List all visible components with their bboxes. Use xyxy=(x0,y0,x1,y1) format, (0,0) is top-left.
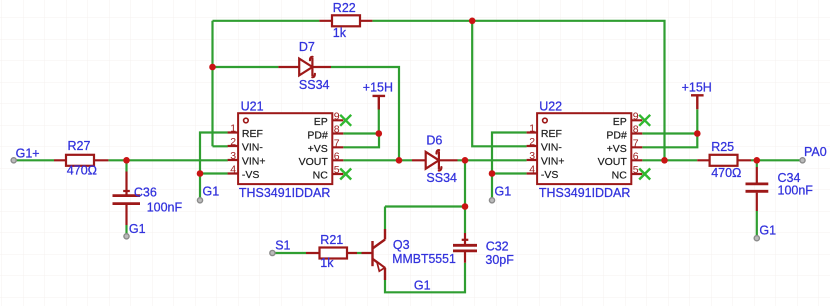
ground G1 under U22 xyxy=(489,198,494,203)
wire D6 cathode to U22 VIN+ xyxy=(458,159,527,161)
capacitor C36 tick xyxy=(123,190,130,192)
capacitor C34 leads xyxy=(756,167,758,211)
svg-text:4: 4 xyxy=(529,164,535,176)
node R22 right branch xyxy=(469,18,476,25)
resistor R21 body xyxy=(320,248,348,259)
U21 pin stubs left xyxy=(228,133,239,174)
capacitor C32 plates xyxy=(453,245,477,251)
svg-text:THS3491IDDAR: THS3491IDDAR xyxy=(539,186,631,200)
capacitor C32 tick xyxy=(462,239,469,241)
resistor R25 body xyxy=(710,155,738,166)
svg-text:+15H: +15H xyxy=(682,80,712,94)
resistor R27 body xyxy=(66,155,94,166)
no-connect X pin5 U22 xyxy=(639,169,650,180)
svg-text:5: 5 xyxy=(633,164,639,176)
ground G1 under C34 xyxy=(754,236,759,241)
U22 pin stubs right xyxy=(631,120,642,174)
svg-text:7: 7 xyxy=(633,137,639,149)
svg-text:G1: G1 xyxy=(414,278,431,292)
wire top net R22 right xyxy=(372,21,664,161)
svg-text:30pF: 30pF xyxy=(485,253,514,267)
svg-text:+VS: +VS xyxy=(308,143,328,155)
svg-text:VOUT: VOUT xyxy=(299,156,329,168)
wire U21 VIN- vertical feedback xyxy=(213,21,228,147)
wire +15H drop U22 xyxy=(696,109,698,133)
wire S1 to R21 xyxy=(275,252,306,254)
diode D6 xyxy=(426,150,442,170)
svg-text:VIN+: VIN+ xyxy=(242,156,266,168)
pin names U21 xyxy=(242,116,328,182)
node feedback/D7 anode xyxy=(209,64,216,71)
svg-text:1k: 1k xyxy=(320,256,334,270)
svg-text:1: 1 xyxy=(529,123,535,135)
wire U22 REF jog to ground xyxy=(492,133,527,174)
svg-text:R27: R27 xyxy=(68,139,91,153)
wire U21 VOUT to D6 anode xyxy=(343,159,412,161)
wire U22 -VS xyxy=(492,172,527,174)
wire C34 bottom to G1 xyxy=(756,211,758,236)
wire Q3 collector horizontal xyxy=(385,205,465,207)
supply +15H (U22) xyxy=(691,95,704,109)
diode D6 leads xyxy=(412,159,458,161)
svg-text:PD#: PD# xyxy=(307,129,328,141)
node D6 cathode/U22 VIN+ xyxy=(462,157,469,164)
svg-text:REF: REF xyxy=(242,128,263,140)
resistor R25 leads xyxy=(697,159,751,161)
svg-text:4: 4 xyxy=(230,164,236,176)
capacitor C32 leads xyxy=(464,233,466,263)
capacitor C36 plates xyxy=(113,196,141,204)
port G1+ xyxy=(11,158,16,163)
wire C34 top xyxy=(756,160,758,167)
svg-text:EP: EP xyxy=(613,116,627,128)
node U22 VOUT/R22/R25 xyxy=(661,157,668,164)
svg-text:1: 1 xyxy=(230,123,236,135)
wire U22 ground drop xyxy=(491,174,493,199)
U21 pin1 marker xyxy=(244,118,249,123)
op-amp U22 box xyxy=(527,113,643,184)
svg-text:VIN+: VIN+ xyxy=(541,156,565,168)
svg-text:G1: G1 xyxy=(129,222,146,236)
svg-text:PD#: PD# xyxy=(606,129,627,141)
svg-text:U22: U22 xyxy=(539,100,562,114)
svg-text:-VS: -VS xyxy=(541,169,559,181)
svg-text:NC: NC xyxy=(612,170,628,182)
svg-text:R25: R25 xyxy=(711,140,734,154)
no-connect X pin5 U21 xyxy=(340,169,351,180)
svg-text:470Ω: 470Ω xyxy=(711,166,741,180)
node R25/C34/PA0 xyxy=(754,157,761,164)
svg-text:R21: R21 xyxy=(320,233,343,247)
capacitor C36 leads xyxy=(125,172,127,226)
svg-text:EP: EP xyxy=(314,116,328,128)
svg-text:-VS: -VS xyxy=(242,169,260,181)
capacitor C34 plates xyxy=(746,184,769,191)
transistor Q3 xyxy=(373,229,386,280)
svg-text:G1: G1 xyxy=(495,185,512,199)
svg-text:D7: D7 xyxy=(299,40,315,54)
wire U22 PD# xyxy=(642,132,697,134)
wire R21 to Q3 base notch xyxy=(357,252,362,254)
ground G1 under U21 xyxy=(197,198,202,203)
wire U22 VOUT to R25 xyxy=(642,159,697,161)
svg-text:REF: REF xyxy=(541,128,562,140)
node U21 PD#/+VS/+15H xyxy=(376,130,383,137)
resistor R22 leads xyxy=(319,20,372,22)
U22 pin1 marker xyxy=(543,118,548,123)
wire U21 +VS up to PD# node xyxy=(343,134,379,148)
svg-text:VIN-: VIN- xyxy=(242,142,264,154)
wire +15H drop U21 xyxy=(378,110,380,134)
svg-text:5: 5 xyxy=(334,164,340,176)
wire Q3 collector green vertical xyxy=(384,207,386,230)
port PA0 xyxy=(800,158,805,163)
svg-text:3: 3 xyxy=(529,150,535,162)
svg-text:S1: S1 xyxy=(275,238,290,252)
wire U21 REF to ground node xyxy=(200,133,228,174)
svg-text:9: 9 xyxy=(633,110,639,122)
wire Q3 emitter to ground bus xyxy=(385,263,465,293)
svg-text:THS3491IDDAR: THS3491IDDAR xyxy=(239,186,331,200)
node U21 VOUT/D7/D6 xyxy=(396,157,403,164)
svg-text:9: 9 xyxy=(334,110,340,122)
svg-text:8: 8 xyxy=(334,124,340,136)
svg-text:7: 7 xyxy=(334,137,340,149)
wire U21 -VS xyxy=(200,172,228,174)
wire R25 to PA0 xyxy=(751,159,800,161)
svg-text:D6: D6 xyxy=(426,133,442,147)
node Q3 collector/C32 xyxy=(462,203,469,210)
node U22 REF/-VS/G1 xyxy=(489,170,496,177)
wire R22 right to U22 VIN- jog xyxy=(472,21,526,147)
wire D7 anode branch xyxy=(213,66,279,68)
wire top net R22 left xyxy=(213,20,320,22)
wire G1+ to R27 xyxy=(16,159,54,161)
wire U21 ground drop xyxy=(199,174,201,199)
svg-text:MMBT5551: MMBT5551 xyxy=(392,252,456,266)
svg-text:C36: C36 xyxy=(134,186,157,200)
U22 pin stubs left xyxy=(527,133,538,174)
wire C36 top xyxy=(125,160,127,171)
wire D7 cathode to VOUT node xyxy=(331,67,399,160)
wire U22 +VS up to PD# node xyxy=(642,134,697,148)
svg-text:SS34: SS34 xyxy=(299,78,330,92)
resistor R21 leads xyxy=(306,252,373,254)
node U22 PD#/+VS/+15H xyxy=(694,130,701,137)
pin names U22 xyxy=(541,116,627,182)
svg-text:C32: C32 xyxy=(486,239,509,253)
U21 pin stubs right xyxy=(332,120,343,174)
svg-text:R22: R22 xyxy=(333,1,356,15)
svg-text:NC: NC xyxy=(313,170,329,182)
wire U21 PD# xyxy=(343,132,379,134)
svg-text:3: 3 xyxy=(230,150,236,162)
svg-text:G1+: G1+ xyxy=(16,147,40,161)
resistor R27 leads xyxy=(54,159,108,161)
no-connect X pin9 U22 xyxy=(639,115,650,126)
svg-text:Q3: Q3 xyxy=(393,238,410,252)
diode D7 leads xyxy=(278,66,331,68)
ground G1 under C36 xyxy=(124,234,129,239)
svg-text:100nF: 100nF xyxy=(778,184,814,198)
component strokes xyxy=(54,21,757,263)
supply +15H (U21) xyxy=(373,96,386,110)
svg-text:2: 2 xyxy=(529,136,535,148)
svg-text:470Ω: 470Ω xyxy=(67,164,97,178)
svg-text:100nF: 100nF xyxy=(147,201,183,215)
no-connect X pin9 U21 xyxy=(340,115,351,126)
svg-text:+15H: +15H xyxy=(363,80,393,94)
diode D7 xyxy=(299,57,315,77)
svg-text:6: 6 xyxy=(633,150,639,162)
wire node to C32/Q3 vertical xyxy=(464,160,466,233)
svg-text:U21: U21 xyxy=(241,100,264,114)
svg-text:G1: G1 xyxy=(203,185,220,199)
svg-text:2: 2 xyxy=(230,136,236,148)
pin numbers U22 xyxy=(529,110,639,176)
wire R27 to U21 VIN+ xyxy=(108,159,227,161)
svg-text:8: 8 xyxy=(633,124,639,136)
wire C36 bottom to G1 xyxy=(125,225,127,234)
svg-text:VIN-: VIN- xyxy=(541,142,563,154)
svg-text:PA0: PA0 xyxy=(804,145,827,159)
svg-text:+VS: +VS xyxy=(607,143,627,155)
svg-text:6: 6 xyxy=(334,150,340,162)
svg-text:VOUT: VOUT xyxy=(598,156,628,168)
node U21 REF/-VS/G1 xyxy=(197,170,204,177)
node R27/C36/VIN+ xyxy=(123,157,130,164)
net pin circles xyxy=(11,158,805,256)
pin numbers U21 xyxy=(230,110,340,176)
svg-text:G1: G1 xyxy=(759,224,776,238)
port S1 xyxy=(270,250,275,255)
op-amp U21 box xyxy=(228,113,344,184)
resistor R22 body xyxy=(332,15,360,26)
svg-text:SS34: SS34 xyxy=(426,171,457,185)
svg-text:1k: 1k xyxy=(333,26,347,40)
